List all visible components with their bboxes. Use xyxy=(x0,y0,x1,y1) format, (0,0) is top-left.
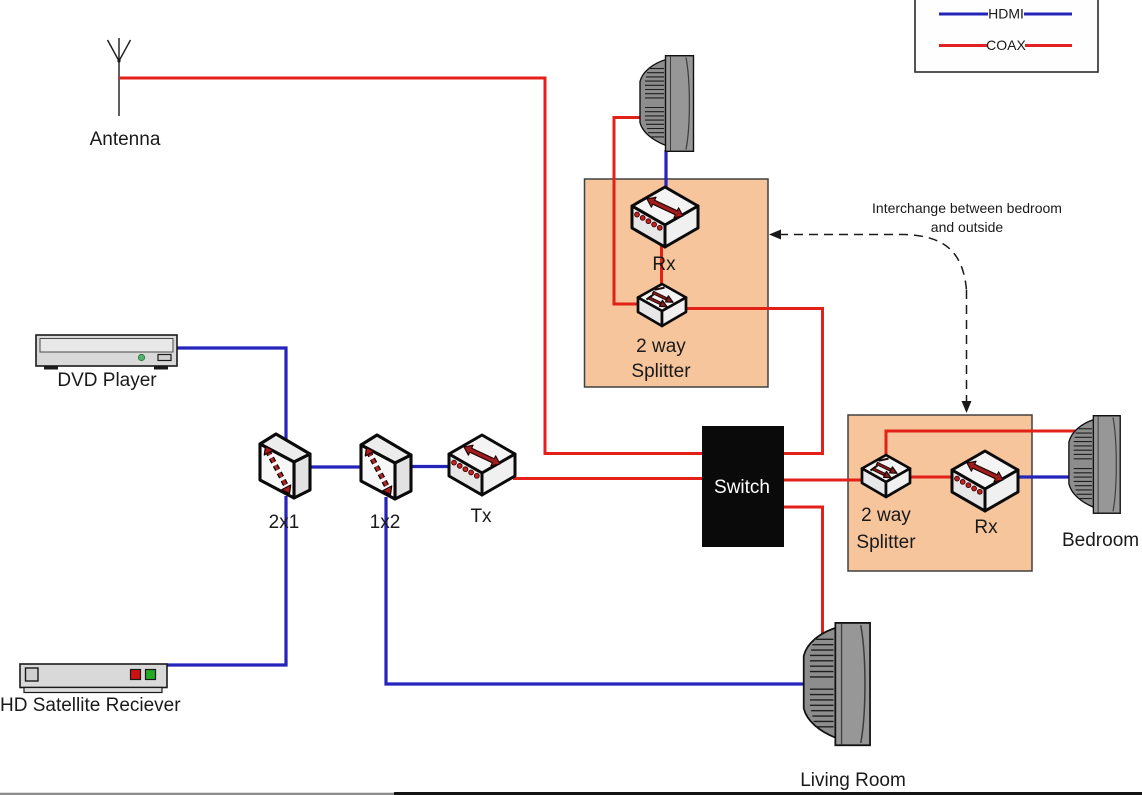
hd satellite receiver xyxy=(20,664,167,693)
svg-text:Interchange between bedroom: Interchange between bedroom xyxy=(872,200,1062,216)
svg-text:Living Room: Living Room xyxy=(800,770,906,791)
wire hdmi dvd to 2x1 xyxy=(176,348,286,443)
wire coax bedroom splitter to bedroom Rx xyxy=(908,476,954,479)
legend COAX line xyxy=(939,44,1072,47)
transmitter Tx xyxy=(449,435,515,495)
dashed connector to top box xyxy=(769,230,967,291)
wire coax top tv to top splitter xyxy=(614,118,642,305)
wire coax Tx to switch xyxy=(513,477,702,480)
wire hdmi 1x2 to living room tv xyxy=(386,497,806,684)
svg-text:Switch: Switch xyxy=(714,477,770,498)
wire hdmi satellite to 2x1 xyxy=(166,496,286,665)
wire coax antenna to switch xyxy=(119,78,702,454)
svg-text:HDMI: HDMI xyxy=(988,6,1024,22)
svg-text:Bedroom: Bedroom xyxy=(1062,530,1139,551)
wire hdmi 2x1 to 1x2 xyxy=(293,465,362,468)
tv living room xyxy=(804,623,870,745)
splitter bedroom xyxy=(862,455,910,497)
wire hdmi 1x2 to Tx xyxy=(394,465,452,468)
wire coax switch to bedroom splitter xyxy=(784,479,864,482)
wire coax top Rx to top splitter xyxy=(660,240,663,288)
zone bedroom splitter box xyxy=(848,415,1032,571)
svg-text:Splitter: Splitter xyxy=(631,361,691,382)
svg-text:2 way: 2 way xyxy=(861,505,911,526)
wire coax bedroom splitter to bedroom tv xyxy=(886,431,1078,458)
wire coax switch to living room tv xyxy=(784,507,823,640)
crossbox 2x1 xyxy=(260,434,310,498)
legend box xyxy=(915,0,1098,72)
crossbox 1x2 xyxy=(361,435,411,499)
tv top xyxy=(640,56,694,152)
svg-text:Antenna: Antenna xyxy=(90,129,161,150)
receiver bedroom Rx xyxy=(952,451,1018,511)
svg-text:DVD Player: DVD Player xyxy=(57,370,157,391)
bottom border line left xyxy=(0,793,394,795)
switch U1 xyxy=(702,426,784,547)
svg-text:Rx: Rx xyxy=(652,254,676,275)
svg-text:Rx: Rx xyxy=(974,517,998,538)
wire hdmi top tv to top Rx xyxy=(664,150,667,192)
receiver U-top Rx xyxy=(632,187,698,247)
splitter top xyxy=(638,284,686,326)
antenna symbol xyxy=(108,38,131,116)
svg-text:COAX: COAX xyxy=(986,37,1026,53)
svg-text:2 way: 2 way xyxy=(636,336,686,357)
tv bedroom xyxy=(1069,416,1120,514)
dashed connector to bedroom box xyxy=(962,290,972,413)
svg-text:Tx: Tx xyxy=(470,506,492,527)
zone top 2 way splitter box xyxy=(585,179,769,387)
svg-text:1x2: 1x2 xyxy=(370,512,401,533)
wire hdmi bedroom Rx to bedroom tv xyxy=(1016,475,1070,478)
bottom border line right xyxy=(394,792,1142,795)
svg-text:Splitter: Splitter xyxy=(856,532,916,553)
svg-text:2x1: 2x1 xyxy=(269,512,300,533)
svg-text:and outside: and outside xyxy=(931,219,1004,235)
legend HDMI line xyxy=(939,13,1072,16)
svg-text:HD Satellite Reciever: HD Satellite Reciever xyxy=(0,695,181,716)
dvd player xyxy=(36,335,177,370)
wire coax switch to top splitter xyxy=(684,309,823,454)
